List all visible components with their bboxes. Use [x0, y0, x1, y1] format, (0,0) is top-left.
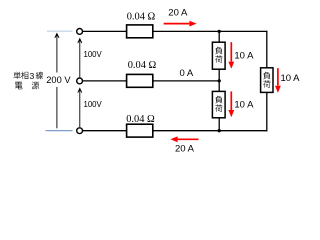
wire middle line left segment	[82, 80, 126, 82]
junction node bottom	[218, 129, 221, 132]
current arrow 10 A load 2	[228, 91, 234, 117]
svg-text:200 V: 200 V	[46, 75, 71, 85]
svg-text:20 A: 20 A	[175, 143, 195, 154]
wire bottom line right segment	[153, 130, 268, 132]
load box 1 (upper 100V load)	[212, 42, 225, 69]
extent line top (light blue)	[47, 30, 73, 32]
svg-text:10 A: 10 A	[281, 73, 301, 84]
extent line bottom (blue)	[46, 130, 73, 132]
svg-text:100V: 100V	[84, 50, 103, 59]
terminal bottom	[77, 128, 83, 134]
svg-text:10 A: 10 A	[234, 100, 254, 111]
svg-text:3: 3	[30, 71, 35, 81]
load 3 text 荷	[263, 80, 270, 88]
load box 3 (200V load, right)	[261, 68, 273, 93]
wire top line left segment	[82, 30, 126, 32]
label 相 (source text)	[21, 72, 28, 80]
current arrow 10 A load 3	[275, 68, 281, 93]
svg-text:10 A: 10 A	[234, 51, 254, 62]
wire top line right segment	[153, 30, 268, 32]
current arrow 20 A bottom (left)	[170, 136, 198, 142]
svg-text:0.04 Ω: 0.04 Ω	[127, 11, 156, 22]
load 1 text 負	[215, 47, 222, 55]
label 源 (source text)	[32, 82, 39, 90]
current arrow 20 A top (right)	[164, 21, 197, 27]
wire load branch 1 upper stub	[218, 31, 220, 42]
load 2 text 負	[215, 96, 222, 104]
load 3 text 負	[263, 72, 270, 80]
load 2 text 荷	[215, 104, 222, 112]
wire right branch upper	[266, 31, 268, 68]
current arrow 10 A load 1	[228, 42, 234, 69]
wire load branch 2 upper stub	[218, 81, 220, 92]
svg-text:0 A: 0 A	[180, 68, 194, 79]
label 単 (source text)	[14, 72, 21, 80]
terminal top	[77, 29, 83, 35]
resistor R1 0.04 ohm (top line)	[127, 25, 153, 38]
resistor R3 0.04 ohm (bottom line)	[127, 124, 153, 137]
dimension arrow 200 V	[55, 34, 59, 129]
svg-text:0.04 Ω: 0.04 Ω	[126, 114, 155, 125]
wire load branch 1 lower stub	[218, 69, 220, 81]
junction node top	[218, 30, 221, 33]
label 電 (source text)	[15, 82, 22, 90]
wire middle line right segment	[153, 80, 219, 82]
wire load branch 2 lower stub	[218, 118, 220, 131]
svg-text:100V: 100V	[84, 100, 103, 109]
wire right branch lower	[266, 92, 268, 131]
dimension arrow 100V upper	[78, 39, 82, 78]
svg-text:0.04 Ω: 0.04 Ω	[128, 60, 157, 71]
terminal middle (neutral)	[77, 78, 83, 84]
load box 2 (lower 100V load)	[212, 91, 225, 117]
svg-text:20 A: 20 A	[168, 8, 188, 19]
load 1 text 荷	[215, 55, 222, 63]
label 線 (source text)	[36, 72, 43, 80]
junction node middle	[218, 79, 221, 82]
dimension arrow 100V lower	[78, 88, 82, 127]
wire bottom line left segment	[82, 130, 126, 132]
resistor R2 0.04 ohm (middle line)	[127, 74, 153, 87]
